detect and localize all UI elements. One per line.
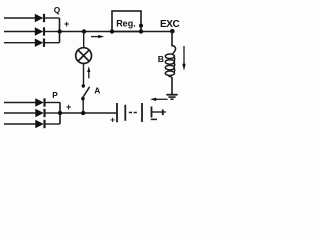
battery BT1 plate 1 (long, +) bbox=[116, 103, 118, 122]
diode D4 (bottom trio line 1) anode wire bbox=[4, 102, 36, 104]
wire terminal stub bbox=[163, 111, 166, 113]
node switch pivot bbox=[81, 97, 85, 101]
svg-text:Reg.: Reg. bbox=[116, 18, 136, 28]
wire main B+ rail bbox=[60, 31, 173, 33]
diode D1 symbol bbox=[35, 14, 44, 22]
wire bottom rail to battery bbox=[60, 112, 116, 114]
regulator U1 box Reg. bbox=[112, 11, 141, 32]
svg-text:+: + bbox=[66, 102, 71, 112]
battery BT1 plate 4 (-) bbox=[151, 107, 153, 118]
inductor B field coil bbox=[165, 46, 175, 77]
wire switch to bottom rail bbox=[82, 99, 84, 113]
arrow current direction up (beside lamp lead) bbox=[87, 66, 90, 78]
node Reg EXC terminal dot bbox=[139, 24, 143, 28]
svg-text:+: + bbox=[110, 114, 115, 124]
wire Q bus vertical bbox=[59, 18, 61, 43]
battery BT1 plate 3 (long) bbox=[141, 103, 143, 122]
svg-text:P: P bbox=[52, 90, 58, 100]
svg-text:+: + bbox=[64, 19, 69, 29]
diode D5 (bottom trio line 2) anode wire bbox=[4, 112, 36, 114]
node junction Q bus / rail bbox=[58, 29, 62, 33]
wire lamp bottom lead bbox=[83, 63, 85, 86]
svg-text:Q: Q bbox=[54, 5, 61, 15]
wire P bus vertical bbox=[59, 103, 61, 125]
node Reg left pin bbox=[110, 29, 114, 33]
diode D1 (top phase line 1) anode wire bbox=[4, 17, 36, 19]
wire lamp top lead bbox=[83, 32, 85, 49]
diode D2 (top phase line 2) anode wire bbox=[4, 31, 36, 33]
wire D1 cathode to bus bbox=[45, 17, 60, 19]
label battery minus dash bbox=[151, 118, 157, 120]
wire EXC drop to field coil bbox=[171, 32, 173, 47]
arrow current direction down (beside coil) bbox=[182, 46, 185, 71]
ground symbol bbox=[166, 95, 177, 100]
wire D3 cathode to bus bbox=[45, 42, 60, 44]
diode D4 symbol bbox=[35, 98, 44, 106]
battery BT1 continuation dash 1 bbox=[129, 112, 132, 114]
svg-text:A: A bbox=[94, 86, 100, 96]
switch A blade (open) bbox=[82, 87, 90, 99]
diode D3 symbol bbox=[35, 39, 44, 47]
arrow current direction right (under rail) bbox=[91, 35, 104, 38]
arrow current direction left (above battery negative) bbox=[150, 98, 168, 101]
diode D6 (bottom trio line 3) anode wire bbox=[4, 123, 36, 125]
svg-text:EXC: EXC bbox=[160, 19, 179, 30]
node Reg right pin bbox=[139, 29, 143, 33]
diode D2 symbol bbox=[35, 27, 44, 35]
wire coil to ground bbox=[171, 77, 173, 94]
node EXC junction bbox=[170, 29, 175, 34]
diode D5 symbol bbox=[35, 109, 44, 117]
wire D4 cathode to bus bbox=[45, 102, 60, 104]
node junction P bus / rail bbox=[58, 111, 62, 115]
battery BT1 continuation dash 2 bbox=[134, 112, 137, 114]
node junction lamp branch bbox=[82, 29, 86, 33]
lamp L1 (charge indicator) bbox=[76, 48, 92, 64]
wire battery negative lead bbox=[152, 111, 163, 113]
wire D6 cathode to bus bbox=[45, 123, 60, 125]
battery BT1 plate 2 bbox=[124, 105, 126, 121]
battery terminal plate 5 (small) bbox=[162, 109, 164, 115]
wire D2 cathode to bus bbox=[45, 31, 60, 33]
diode D3 (top phase line 3) anode wire bbox=[4, 42, 36, 44]
diode D6 symbol bbox=[35, 120, 44, 128]
node switch fixed contact bbox=[82, 84, 85, 87]
svg-text:B: B bbox=[158, 54, 164, 64]
wire D5 cathode to bus bbox=[45, 112, 60, 114]
node junction switch / rail bbox=[81, 111, 85, 115]
